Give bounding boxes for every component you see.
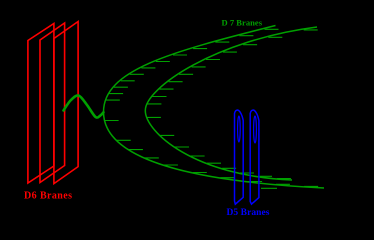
wavy string from D6 stack to D7 vertex <box>64 95 104 117</box>
D5 brane left inner cycle <box>238 116 241 142</box>
D6 brane plane 2 <box>40 23 65 183</box>
svg-text:D6 Branes: D6 Branes <box>24 190 72 201</box>
D6 brane plane 3 <box>54 22 78 184</box>
D6 brane plane 1 <box>28 24 54 184</box>
svg-text:D5 Branes: D5 Branes <box>227 208 270 218</box>
D7 brane outer curve upper branch <box>104 26 276 113</box>
D5 brane left capsule <box>235 110 244 204</box>
svg-text:D 7 Branes: D 7 Branes <box>222 18 263 28</box>
hatch marks on D7 curves <box>105 29 319 188</box>
D7 brane inner curve lower branch <box>145 111 292 181</box>
D7 brane inner curve upper branch <box>145 27 317 111</box>
D7 brane outer curve lower branch <box>104 112 325 188</box>
D5 brane right capsule <box>250 110 259 204</box>
D5 brane right inner cycle <box>254 116 257 143</box>
